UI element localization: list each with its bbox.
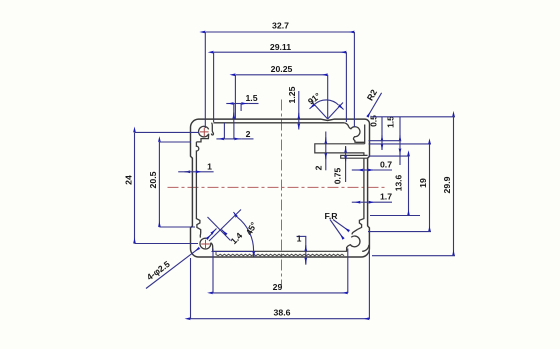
- left wall inner (below top boss): [196, 142, 200, 234]
- svg-text:1: 1: [297, 234, 302, 244]
- dimension 24: [135, 132, 200, 243]
- dimension 38.6: [191, 250, 370, 319]
- dimension 20.25: [235, 75, 327, 119]
- svg-text:32.7: 32.7: [272, 21, 289, 31]
- leader F.R: [330, 220, 349, 240]
- ext lines right keyhole: [369, 141, 432, 156]
- top-right screw boss (keyhole): [344, 123, 365, 143]
- boss center mark bottom-left: [201, 240, 210, 249]
- centerline horizontal: [168, 186, 387, 188]
- dimension 2 right shelf: [325, 132, 327, 171]
- boss center mark top-left: [200, 128, 209, 137]
- dimension 29: [213, 249, 348, 294]
- bottom inner edge with serrations: [213, 247, 347, 256]
- dimension 29.9: [371, 117, 455, 256]
- dimension 0.75: [345, 146, 347, 182]
- dimension 32.7: [205, 32, 354, 128]
- right wall inner (zigzag above bottom boss): [358, 158, 364, 229]
- svg-text:0.75: 0.75: [333, 167, 343, 184]
- svg-text:1.4: 1.4: [229, 230, 245, 246]
- svg-text:13.6: 13.6: [394, 174, 404, 191]
- svg-text:24: 24: [124, 175, 134, 185]
- leader 4-dia2.5: [146, 248, 200, 289]
- dimension 1.25 vertical: [298, 91, 300, 130]
- dimension 20.5: [159, 142, 195, 227]
- svg-text:29.11: 29.11: [270, 42, 291, 52]
- svg-text:0.7: 0.7: [380, 160, 392, 170]
- svg-text:29.9: 29.9: [442, 176, 452, 193]
- radius leader R2: [367, 93, 381, 117]
- svg-text:38.6: 38.6: [274, 308, 291, 318]
- dimension 1.4 slot: [207, 217, 231, 241]
- svg-text:45°: 45°: [244, 220, 259, 237]
- dimension 1.5 right top: [399, 117, 401, 165]
- PCB shelf A: [315, 144, 365, 155]
- svg-text:20.25: 20.25: [271, 64, 293, 74]
- svg-text:29: 29: [273, 282, 283, 292]
- dimension 13.6: [370, 156, 420, 215]
- dimension 29.11: [214, 52, 347, 122]
- dimension 0.5 right top: [381, 117, 383, 150]
- svg-text:19: 19: [418, 178, 428, 188]
- PCB rib B: [341, 155, 368, 158]
- svg-text:1.25: 1.25: [287, 86, 297, 103]
- part inner top wall: [213, 122, 344, 124]
- svg-text:1.7: 1.7: [380, 192, 392, 202]
- svg-text:2: 2: [314, 165, 324, 170]
- angle dimension 45 deg: [209, 210, 256, 258]
- part outline outer: [191, 119, 370, 257]
- bottom-right screw boss (keyhole): [347, 229, 369, 251]
- svg-text:91°: 91°: [306, 90, 323, 106]
- top-left screw boss: [196, 123, 213, 142]
- svg-text:1: 1: [207, 162, 212, 172]
- dimension 1 left wall: [178, 171, 213, 173]
- svg-text:1.5: 1.5: [245, 93, 257, 103]
- dimension 1 bottom: [297, 236, 307, 264]
- dimension 19: [368, 144, 431, 231]
- svg-text:F.R: F.R: [324, 211, 338, 221]
- dimension 1.7 wall: [352, 201, 392, 203]
- angle dimension 91 deg: [310, 100, 344, 119]
- svg-text:2: 2: [246, 129, 251, 139]
- dimension 1.5 top-left: [226, 104, 258, 123]
- svg-text:1.5: 1.5: [386, 116, 396, 128]
- dimension 2 top-left slot: [216, 123, 253, 139]
- svg-text:20.5: 20.5: [148, 171, 158, 188]
- dimension 0.7 wall: [352, 169, 392, 171]
- right wall inner line: [364, 125, 366, 144]
- centerline vertical: [281, 100, 283, 286]
- bottom-left screw boss: [200, 234, 213, 252]
